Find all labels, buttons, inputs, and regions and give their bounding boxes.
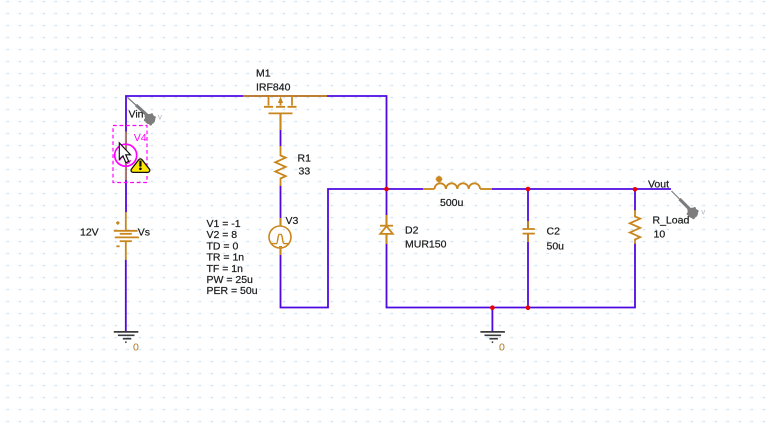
svg-text:TR = 1n: TR = 1n bbox=[207, 252, 245, 264]
svg-text:MUR150: MUR150 bbox=[405, 239, 447, 251]
svg-text:TF = 1n: TF = 1n bbox=[207, 263, 244, 275]
svg-text:PW = 25u: PW = 25u bbox=[207, 274, 254, 286]
svg-text:M1: M1 bbox=[256, 67, 271, 79]
svg-text:v: v bbox=[701, 208, 705, 217]
svg-text:TD = 0: TD = 0 bbox=[207, 240, 239, 252]
svg-text:50u: 50u bbox=[547, 241, 565, 253]
svg-text:500u: 500u bbox=[440, 197, 464, 209]
svg-text:R_Load: R_Load bbox=[653, 215, 690, 227]
svg-text:V3: V3 bbox=[286, 215, 299, 227]
svg-text:PER = 50u: PER = 50u bbox=[207, 285, 258, 297]
svg-text:Vs: Vs bbox=[138, 226, 150, 238]
svg-text:Vout: Vout bbox=[648, 179, 669, 191]
svg-text:0: 0 bbox=[499, 342, 505, 354]
svg-text:R1: R1 bbox=[298, 153, 312, 165]
svg-text:D2: D2 bbox=[405, 225, 419, 237]
svg-text:10: 10 bbox=[654, 228, 666, 240]
svg-text:V1 = -1: V1 = -1 bbox=[207, 218, 241, 230]
svg-text:C2: C2 bbox=[547, 226, 561, 238]
svg-text:33: 33 bbox=[299, 166, 311, 178]
svg-text:12V: 12V bbox=[80, 226, 99, 238]
svg-text:v: v bbox=[158, 112, 162, 121]
svg-text:0: 0 bbox=[133, 342, 139, 354]
svg-text:IRF840: IRF840 bbox=[256, 82, 291, 94]
svg-text:Vin: Vin bbox=[129, 108, 144, 120]
svg-text:V4: V4 bbox=[134, 132, 147, 144]
svg-text:V2 = 8: V2 = 8 bbox=[207, 229, 238, 241]
